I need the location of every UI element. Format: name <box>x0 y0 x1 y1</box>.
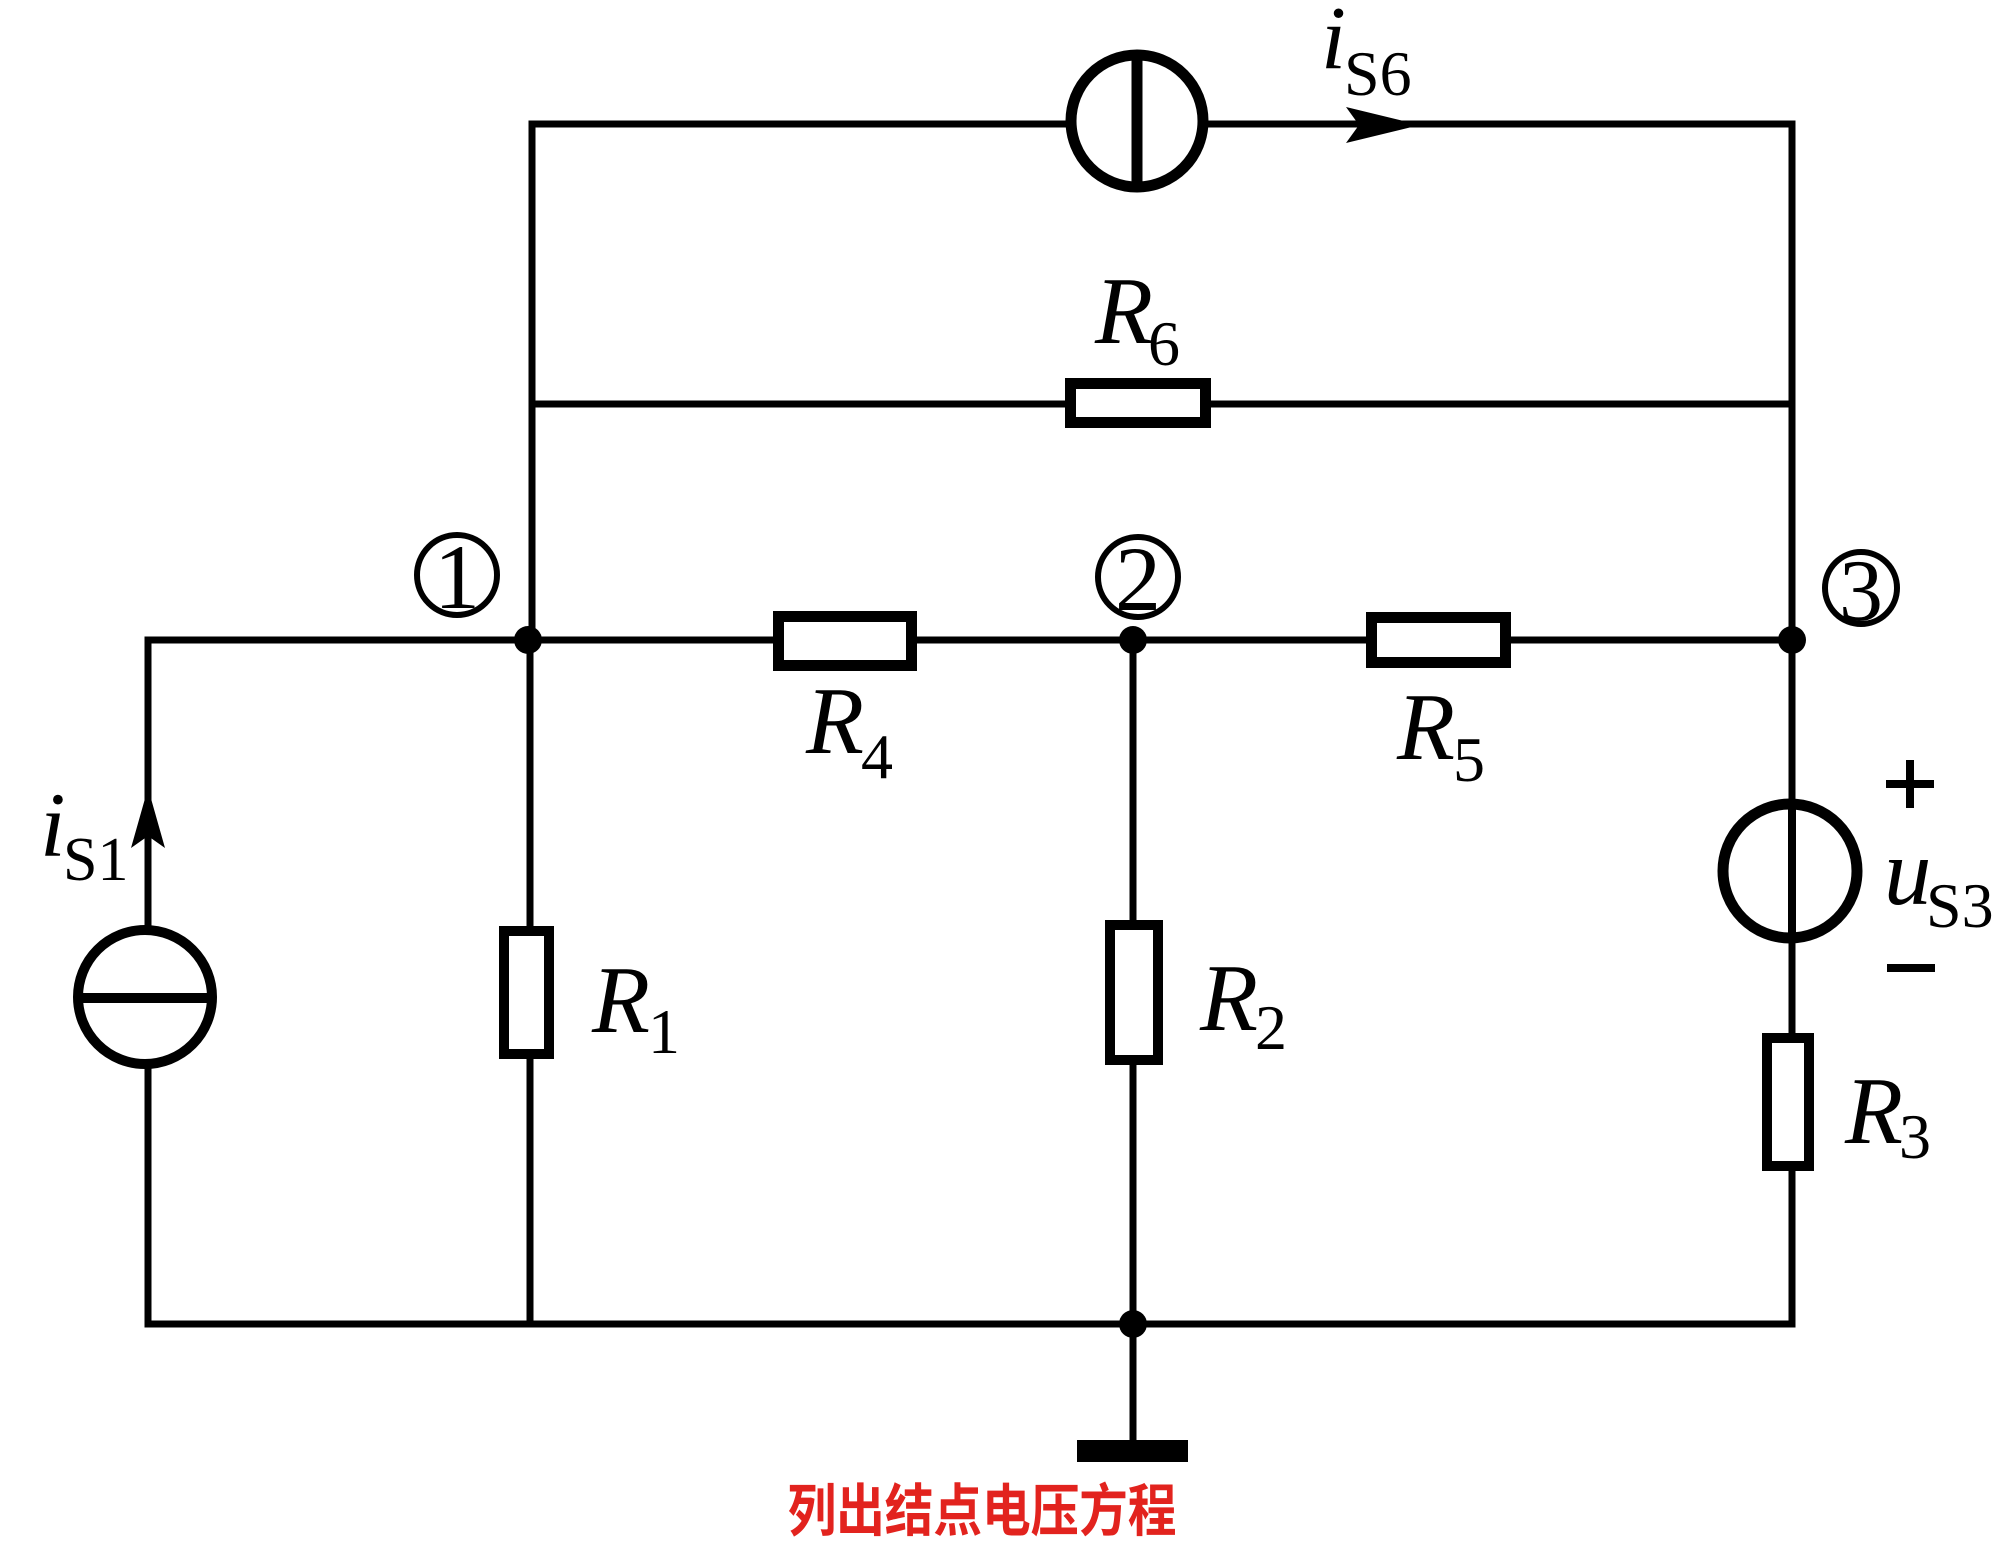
wire R6 branch horizontal <box>532 401 1792 408</box>
svg-text:S1: S1 <box>63 826 128 894</box>
junction node 1 <box>514 626 542 654</box>
node 3 label <box>1825 543 1897 640</box>
label R1 <box>591 947 680 1067</box>
label minus sign <box>1887 964 1935 972</box>
wire right vertical <box>1789 124 1796 1328</box>
arrow iS1 direction <box>131 788 165 848</box>
current source iS1 circle <box>78 930 212 1064</box>
wire main node horizontal <box>148 637 1792 644</box>
label iS1 <box>40 774 128 894</box>
node 2 label <box>1098 528 1178 630</box>
svg-text:5: 5 <box>1453 724 1485 795</box>
wire top horizontal <box>529 121 1796 128</box>
svg-text:u: u <box>1884 819 1932 925</box>
label R2 <box>1199 945 1287 1063</box>
svg-text:R: R <box>1844 1058 1903 1164</box>
red caption text <box>789 1482 1175 1537</box>
svg-text:i: i <box>40 774 66 876</box>
svg-text:3: 3 <box>1899 1101 1931 1172</box>
label R5 <box>1396 674 1485 795</box>
label iS6 <box>1321 0 1412 109</box>
svg-text:1: 1 <box>434 526 480 628</box>
wire far-left vertical <box>145 637 152 1328</box>
svg-text:S3: S3 <box>1926 870 1994 941</box>
wire ground stub <box>1130 1324 1137 1440</box>
resistor R4 <box>779 617 912 666</box>
resistor R1 <box>504 931 549 1054</box>
label uS3 <box>1884 819 1994 941</box>
wire R1 vertical <box>527 640 534 1324</box>
wire bottom horizontal <box>145 1321 1796 1328</box>
node 1 label <box>417 526 497 628</box>
junction ground node <box>1119 1310 1147 1338</box>
svg-text:3: 3 <box>1839 543 1883 640</box>
svg-text:R: R <box>591 947 650 1053</box>
svg-text:2: 2 <box>1255 992 1287 1063</box>
label R4 <box>805 668 893 792</box>
svg-text:R: R <box>1094 258 1153 364</box>
resistor R3 <box>1767 1038 1809 1166</box>
junction node 3 <box>1778 626 1806 654</box>
resistor R2 <box>1110 925 1158 1060</box>
svg-text:R: R <box>1396 674 1455 780</box>
svg-text:1: 1 <box>648 996 680 1067</box>
label R6 <box>1094 258 1180 379</box>
current source U6 circle <box>1071 55 1203 187</box>
svg-text:R: R <box>1199 945 1258 1051</box>
svg-text:6: 6 <box>1148 308 1180 379</box>
svg-text:R: R <box>805 668 864 774</box>
svg-text:i: i <box>1321 0 1346 88</box>
wire left vertical upper <box>529 121 536 641</box>
label R3 <box>1844 1058 1931 1172</box>
svg-text:S6: S6 <box>1344 38 1412 109</box>
label plus sign <box>1886 760 1934 808</box>
svg-text:4: 4 <box>861 721 893 792</box>
voltage source uS3 circle <box>1723 804 1857 938</box>
wire R2 vertical <box>1130 640 1137 1324</box>
ground symbol <box>1077 1440 1188 1462</box>
arrow iS6 direction <box>1346 107 1420 143</box>
resistor R6 <box>1071 384 1206 423</box>
junction node 2 <box>1119 626 1147 654</box>
resistor R5 <box>1372 618 1506 663</box>
svg-text:2: 2 <box>1115 528 1161 630</box>
